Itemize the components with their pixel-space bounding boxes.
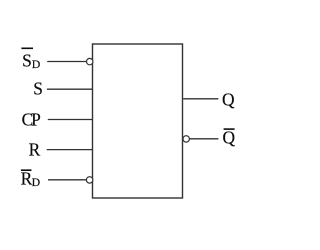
svg-text:D: D [32, 57, 41, 71]
svg-text:Q: Q [222, 90, 235, 110]
svg-text:S: S [33, 78, 43, 98]
svg-text:Q: Q [223, 127, 236, 147]
svg-text:D: D [32, 175, 41, 189]
svg-text:P: P [31, 109, 41, 129]
svg-text:S: S [22, 50, 32, 70]
svg-text:R: R [29, 140, 41, 160]
